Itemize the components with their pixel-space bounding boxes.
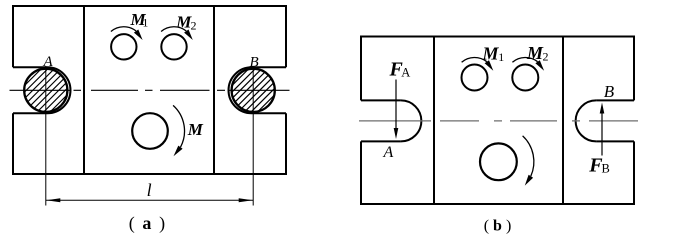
svg-text:l: l [147,180,152,200]
bar (a) right edge [213,6,215,174]
svg-text:B: B [250,55,259,71]
dimension arrow left [46,198,60,202]
moment arc arrow M1 (b) [462,57,487,62]
slot B (b) semicircular end [576,100,596,141]
slot A (b) semicircular end [401,100,421,141]
pin B hatched circle [230,0,277,185]
svg-text:( a ): ( a ) [129,213,167,234]
svg-text:1: 1 [142,15,148,29]
moment circle M2 (a) [161,34,186,59]
moment circle M2 (b) [512,65,538,91]
svg-text:A: A [401,65,410,79]
moment arc arrow M2 (b) [512,57,537,62]
svg-text:M: M [187,120,204,139]
dimension line l [46,199,253,201]
svg-text:B: B [602,162,610,176]
svg-text:A: A [383,144,394,161]
pin A vertical centerline / extension line [45,66,47,206]
centerline (a) dash-dot [74,89,226,91]
moment circle M1 (b) [462,65,488,91]
svg-text:2: 2 [191,18,197,32]
moment arc arrow M2 (a) [161,27,186,32]
moment arc arrow M (a) [173,105,184,147]
bar (a) left edge [83,6,85,174]
slot B (b) edges [596,100,634,141]
svg-text:( b ): ( b ) [484,218,512,235]
svg-text:1: 1 [498,50,504,64]
bar (b) left edge [433,37,435,205]
force arrow F_B [601,112,603,156]
pin B vertical centerline / extension line [252,68,254,206]
svg-text:M: M [526,43,544,63]
slot B edges [252,67,287,113]
svg-text:2: 2 [543,49,549,63]
dimension arrow right [239,198,253,202]
body (a) outer outline [13,6,286,174]
moment circle (b) bottom [480,143,517,180]
moment circle M1 (a) [111,34,136,59]
pin A horizontal crosshair [10,89,72,91]
body (b) outer outline [361,37,634,205]
force arrow F_A [395,80,397,131]
pin A hatched circle [22,0,69,185]
centerline (b) gray dash-dot [359,120,638,122]
moment arc arrow (b) bottom [523,136,534,176]
slot A (b) edges [361,100,401,141]
svg-text:A: A [43,54,54,70]
slot A edges [13,67,48,113]
slot A semicircular end (hole arc) [48,67,71,113]
svg-text:B: B [604,82,615,101]
svg-text:M: M [482,43,500,63]
moment arc arrow M1 (a) [111,27,136,32]
bar (b) right edge [562,37,564,205]
slot B semicircular end (hole arc) [229,67,252,113]
moment circle M (a) [132,113,168,149]
pin B horizontal crosshair [228,89,290,91]
